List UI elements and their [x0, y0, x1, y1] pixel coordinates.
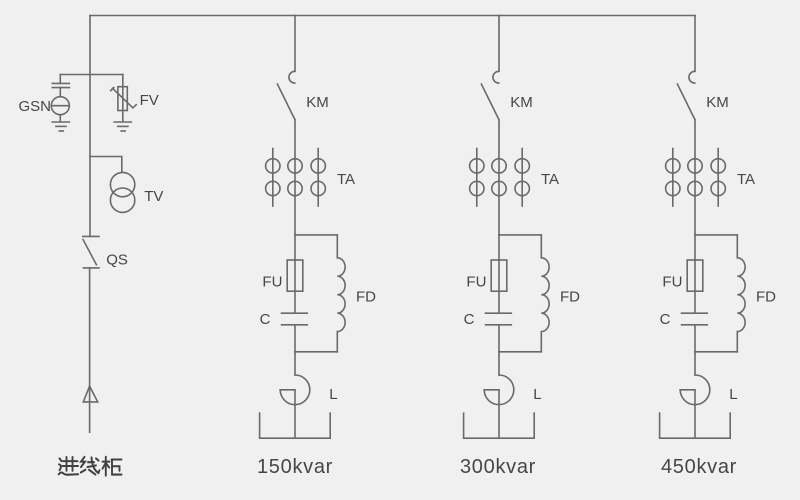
svg-text:FD: FD — [356, 289, 376, 306]
capacitor C — [282, 313, 308, 325]
branch 150kvar — [257, 16, 376, 478]
svg-text:FU: FU — [662, 274, 682, 291]
wire: capacitor to loop bottom — [498, 325, 500, 352]
label char 线 — [81, 457, 100, 475]
cabinet frame — [464, 413, 535, 438]
wire: loop bottom — [695, 351, 737, 353]
filter reactor FD — [737, 235, 745, 352]
contactor KM — [677, 71, 695, 120]
series reactor L — [280, 375, 310, 438]
svg-text:450kvar: 450kvar — [661, 456, 737, 478]
svg-text:C: C — [464, 311, 475, 328]
ground below FV — [114, 122, 131, 131]
filter reactor FD — [541, 235, 549, 352]
capacitor C — [486, 313, 512, 325]
fuse FU — [287, 260, 303, 291]
surge arrester FV — [111, 75, 137, 122]
svg-text:FD: FD — [756, 289, 776, 306]
label char 柜 — [103, 457, 122, 476]
svg-text:L: L — [533, 386, 541, 403]
wire: loop left through fuse — [498, 235, 500, 313]
svg-text:TA: TA — [737, 171, 755, 188]
svg-text:L: L — [329, 386, 337, 403]
wire: branch drop from bus — [294, 16, 296, 72]
wire: incoming feeder drop — [89, 16, 91, 237]
branch 300kvar — [460, 16, 580, 478]
svg-text:FD: FD — [560, 289, 580, 306]
label 进线柜 — [59, 457, 122, 476]
svg-text:150kvar: 150kvar — [257, 456, 333, 478]
contactor KM — [277, 71, 295, 120]
cabinet frame — [260, 413, 331, 438]
voltage transformer TV — [110, 172, 134, 212]
cabinet frame — [660, 413, 731, 438]
series reactor L — [680, 375, 710, 438]
svg-text:FU: FU — [466, 274, 486, 291]
current transformer TA — [666, 149, 726, 207]
wire: loop to series reactor — [498, 352, 500, 375]
wire: loop top — [295, 234, 337, 236]
svg-text:KM: KM — [306, 94, 329, 111]
wire: branch drop from bus — [498, 16, 500, 72]
svg-text:TA: TA — [337, 171, 355, 188]
svg-text:FV: FV — [140, 92, 159, 109]
wire: KM to filter loop — [498, 120, 500, 235]
wire: loop left through fuse — [694, 235, 696, 313]
svg-text:KM: KM — [706, 94, 729, 111]
wire: KM to filter loop — [694, 120, 696, 235]
svg-text:QS: QS — [106, 252, 128, 269]
ground below GSN — [52, 122, 69, 131]
svg-text:FU: FU — [262, 274, 282, 291]
wire: GSN/FV tee branch — [60, 74, 123, 76]
wire: TV tee branch — [90, 157, 122, 173]
svg-text:C: C — [660, 311, 671, 328]
capacitor C — [682, 313, 708, 325]
svg-text:TV: TV — [144, 188, 163, 205]
wire: loop bottom — [499, 351, 541, 353]
svg-text:300kvar: 300kvar — [460, 456, 536, 478]
main bus — [90, 15, 695, 17]
wire: loop top — [499, 234, 541, 236]
wire: branch drop from bus — [694, 16, 696, 72]
wire: capacitor to loop bottom — [694, 325, 696, 352]
svg-text:TA: TA — [541, 171, 559, 188]
wire: KM to filter loop — [294, 120, 296, 235]
fuse FU — [491, 260, 507, 291]
series reactor L — [484, 375, 514, 438]
disconnector QS — [83, 236, 99, 268]
svg-text:GSN: GSN — [19, 98, 52, 115]
branch 450kvar — [660, 16, 777, 478]
svg-text:KM: KM — [510, 94, 533, 111]
label char 进 — [59, 457, 79, 475]
filter reactor FD — [337, 235, 345, 352]
wire: capacitor to loop bottom — [294, 325, 296, 352]
svg-text:C: C — [260, 311, 271, 328]
svg-text:L: L — [729, 386, 737, 403]
wire: loop left through fuse — [294, 235, 296, 313]
arrow: incoming line — [83, 386, 97, 402]
fuse FU — [687, 260, 703, 291]
voltage indicator GSN — [51, 75, 69, 123]
current transformer TA — [470, 149, 530, 207]
wire: feeder below QS — [89, 268, 91, 432]
wire: loop to series reactor — [694, 352, 696, 375]
wire: loop bottom — [295, 351, 337, 353]
wire: loop to series reactor — [294, 352, 296, 375]
contactor KM — [481, 71, 499, 120]
wire: loop top — [695, 234, 737, 236]
current transformer TA — [266, 149, 326, 207]
